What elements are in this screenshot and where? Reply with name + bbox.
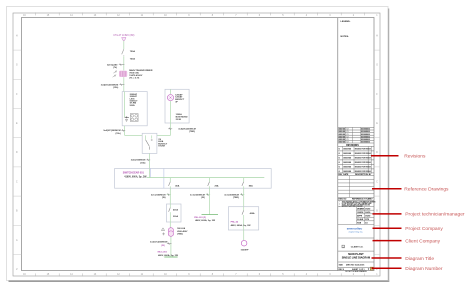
svg-text:CLIENT CO.: CLIENT CO. — [351, 247, 364, 249]
svg-text:Diagram Number: Diagram Number — [405, 266, 443, 272]
disclaimer block — [338, 200, 375, 208]
svg-text:DATE: DATE — [343, 173, 349, 176]
svg-text:0/00/00: 0/00/00 — [338, 142, 346, 144]
svg-text:Client Company: Client Company — [405, 238, 440, 244]
svg-text:200A: 200A — [173, 215, 178, 218]
sheet shadow — [9, 9, 390, 282]
ruler ticks rows — [13, 50, 380, 254]
feeder 1 fuse labels — [173, 209, 178, 218]
inner drawing frame — [22, 18, 375, 271]
ruler zone numbers — [23, 14, 378, 276]
svg-text:ST-RM: ST-RM — [158, 146, 165, 148]
panel PNL-001 bus stub — [202, 214, 219, 216]
cable label tie drop — [131, 159, 146, 165]
project company logo — [338, 227, 374, 239]
CT symbols — [113, 71, 117, 78]
svg-text:00/00/00: 00/00/00 — [343, 167, 352, 169]
svg-text:3(1/C)#4/0: 3(1/C)#4/0 — [107, 63, 118, 66]
wire: spare cubicle drop — [157, 123, 171, 135]
svg-text:CHECK: CHECK — [357, 212, 364, 214]
svg-text:ISSUED FOR REV: ISSUED FOR REV — [355, 162, 370, 164]
MCC bus stub — [164, 256, 177, 258]
breaker B2 label — [175, 93, 185, 103]
svg-text:(7k): (7k) — [113, 67, 117, 69]
svg-text:50VA: 50VA — [130, 104, 136, 107]
cable tick right drop — [168, 128, 172, 130]
bus 4160V — [147, 177, 265, 179]
MCC rating label — [158, 254, 179, 257]
feeder 3 fuse label — [250, 212, 255, 215]
wire inside incomer cubicle — [124, 92, 126, 118]
breaker CT mark — [125, 117, 129, 122]
svg-text:ISSUED FOR REV: ISSUED FOR REV — [355, 171, 370, 173]
annotation line: Diagram Number — [372, 267, 402, 269]
annotation label: Project Company — [405, 226, 443, 232]
switchgear cell divider 1 — [150, 169, 152, 178]
wire: utility drop — [123, 41, 125, 50]
feeder 1 lower cable tick — [167, 243, 172, 245]
svg-text:Project technician/manager: Project technician/manager — [405, 212, 465, 218]
switchgear cell divider 2 — [163, 169, 165, 189]
spare bus label — [176, 113, 188, 121]
feeder 2 cable tick — [206, 193, 210, 195]
feeder tap 3 — [242, 178, 244, 189]
cable label 3(1/C)#4/0 — [107, 63, 118, 69]
annotation label: Revisions — [404, 154, 426, 160]
annotation label: Project technician/manager — [405, 212, 465, 218]
feeder 2 cable label — [190, 194, 205, 199]
svg-text:G: G — [16, 64, 18, 67]
svg-text:3x4(3/C)500MCM: 3x4(3/C)500MCM — [103, 129, 121, 132]
transformer T1 — [119, 71, 127, 77]
svg-text:Reference Drawings: Reference Drawings — [404, 187, 449, 193]
cable tick tie drop — [146, 159, 150, 161]
svg-text:400A: 400A — [173, 209, 178, 212]
svg-text:750A: 750A — [130, 50, 136, 53]
svg-text:(15k): (15k) — [113, 87, 118, 89]
diagram number row — [339, 267, 373, 271]
client company row — [338, 245, 374, 251]
svg-text:20A: 20A — [215, 184, 219, 187]
svg-text:40A: 40A — [175, 184, 179, 187]
svg-text:▼: ▼ — [367, 268, 370, 271]
svg-text:DRAWN: DRAWN — [357, 207, 364, 210]
svg-text:SCALE: SCALE — [357, 218, 364, 221]
svg-text:DESCRIPTION: DESCRIPTION — [355, 174, 369, 176]
panel PNL-001 rating — [195, 219, 216, 222]
notes heading — [341, 36, 350, 38]
svg-text:Project Company: Project Company — [405, 226, 443, 232]
disconnect switch S1 — [122, 49, 125, 55]
svg-text:480V, 600A, 3φ, 3W: 480V, 600A, 3φ, 3W — [158, 254, 179, 257]
incomer breaker data — [130, 93, 139, 107]
revision summary table — [338, 127, 374, 143]
feeder 1 switch box — [167, 204, 182, 222]
svg-text:(TBD): (TBD) — [177, 233, 183, 235]
annotation line: Project Company — [373, 227, 402, 229]
switchgear name label — [123, 171, 145, 174]
svg-text:ISSUED FOR REV: ISSUED FOR REV — [355, 149, 370, 151]
svg-text:Diagram Title: Diagram Title — [405, 256, 434, 262]
svg-text:(15k): (15k) — [140, 162, 145, 164]
tie switch box — [142, 133, 157, 153]
svg-text:H: H — [16, 34, 18, 37]
svg-text:enersoltec: enersoltec — [347, 227, 363, 231]
svg-text:00/00/00: 00/00/00 — [343, 171, 352, 173]
cable label right drop — [178, 128, 196, 134]
tie switch — [146, 135, 153, 149]
incomer cubicle box (left) — [122, 92, 147, 126]
svg-text:MCC-001: MCC-001 — [158, 252, 168, 254]
sign-off rows — [338, 207, 374, 225]
revisions header row — [338, 173, 374, 176]
panel PNL-002 rating — [231, 224, 252, 227]
svg-text:00/00/00: 00/00/00 — [343, 158, 352, 160]
annotation line: Client Company — [373, 240, 402, 242]
svg-text:3x1@500MCM: 3x1@500MCM — [224, 194, 239, 196]
svg-text:0/0/00: 0/0/00 — [365, 216, 370, 218]
cable tick (7k) — [119, 64, 125, 66]
feeder 3 cable tick — [240, 193, 244, 195]
panel PNL-002 box — [228, 207, 258, 230]
svg-text:SINGLE LINE DIAGRAM: SINGLE LINE DIAGRAM — [342, 256, 370, 259]
annotation label: Client Company — [405, 238, 440, 244]
svg-text:400A: 400A — [250, 212, 255, 215]
svg-text:(TBD): (TBD) — [189, 131, 195, 133]
utility source symbol — [122, 38, 126, 41]
svg-text:25.9K: 25.9K — [176, 119, 182, 121]
svg-text:REV 0: REV 0 — [339, 269, 344, 271]
motor M1 — [241, 240, 247, 246]
svg-text:3x4(3/C)500MCM: 3x4(3/C)500MCM — [101, 83, 119, 86]
wire into spare cubicle — [170, 89, 172, 94]
tie switch label — [158, 139, 168, 148]
transformer T2 label — [177, 227, 188, 235]
svg-text:3x3(1/C)500MCM: 3x3(1/C)500MCM — [150, 242, 168, 244]
footer note — [345, 270, 367, 273]
svg-text:LEGEND:: LEGEND: — [341, 21, 351, 23]
annotation line: Diagram Title — [372, 257, 402, 259]
svg-text:SIZE: SIZE — [339, 264, 344, 266]
panel PNL-001 name — [194, 217, 206, 219]
svg-text:3x4@500MCM: 3x4@500MCM — [131, 159, 146, 162]
svg-text:4160-480V: 4160-480V — [177, 230, 188, 233]
wire: feeder 2 drop — [209, 188, 211, 214]
transformer T1 label — [129, 69, 153, 79]
cable label 3x4(3/C)500MCM — [101, 83, 119, 89]
svg-text:3x4(3/C)500MCM: 3x4(3/C)500MCM — [178, 128, 196, 131]
fuse label 750b — [130, 58, 136, 61]
annotation line: Reference Drawings — [372, 188, 402, 190]
wire inside spare cubicle — [170, 101, 172, 123]
svg-text:DO NOT SCALE DRAWING: DO NOT SCALE DRAWING — [345, 270, 367, 273]
cable tick left drop — [121, 129, 125, 131]
svg-text:PNL-02: PNL-02 — [231, 222, 239, 224]
svg-text:NOTES:: NOTES: — [341, 36, 350, 38]
MCC name label — [158, 252, 168, 254]
feeder 3 switch — [242, 207, 244, 230]
ruler zone letters — [16, 34, 378, 271]
svg-text:APPR: APPR — [357, 215, 363, 218]
cable tick (15k) — [119, 84, 124, 86]
feeder 3 cable label — [224, 194, 239, 199]
svg-text:3x1@500MCM: 3x1@500MCM — [151, 194, 166, 196]
feeder 1 cable label — [151, 194, 166, 199]
svg-text:PNL-001 (F): PNL-001 (F) — [194, 217, 206, 219]
breaker B2 (circle symbol) — [167, 95, 173, 101]
svg-text:00/00/00: 00/00/00 — [343, 162, 352, 164]
svg-text:D: D — [16, 151, 18, 154]
svg-text:00000000: 00000000 — [361, 142, 371, 144]
svg-text:1000HP: 1000HP — [241, 250, 249, 252]
annotation line: Revisions — [371, 155, 399, 157]
svg-text:A1: A1 — [365, 222, 367, 225]
legend heading — [341, 21, 351, 23]
annotation label: Diagram Title — [405, 256, 434, 262]
svg-text:ISSUED FOR REV: ISSUED FOR REV — [355, 153, 370, 155]
svg-text:C: C — [376, 180, 378, 183]
svg-text:500 kVA: 500 kVA — [177, 227, 185, 230]
svg-text:750A: 750A — [130, 58, 136, 61]
switchgear rating label — [124, 176, 147, 179]
svg-text:(W): (W) — [162, 197, 166, 199]
diagram title box — [338, 253, 374, 262]
revisions table — [338, 145, 374, 173]
svg-text:DWG NO 102-E-0001: DWG NO 102-E-0001 — [346, 264, 364, 266]
svg-text:Z% = 5.75: Z% = 5.75 — [129, 77, 140, 79]
fuse label 750 — [130, 50, 136, 53]
svg-text:(W): (W) — [161, 245, 165, 247]
svg-text:C: C — [16, 180, 18, 183]
feeder tap 1 — [169, 178, 171, 189]
feeder tap 2 — [208, 178, 210, 189]
motor M1 label — [241, 250, 249, 252]
feeder 1 cable tick — [167, 193, 171, 195]
wire: switch to transformer — [123, 56, 125, 70]
svg-text:480V, 600A, 3φ, 3W: 480V, 600A, 3φ, 3W — [231, 224, 252, 227]
annotation line: Project technician/manager — [373, 213, 402, 215]
referenced drawings header — [338, 199, 374, 201]
cable label left drop — [103, 129, 121, 135]
drawing size row — [338, 264, 374, 267]
wire: incomer cubicle drop — [125, 126, 143, 136]
feeder fuse label 20A — [215, 184, 219, 187]
feeder fuse label 40A — [175, 184, 179, 187]
outer ruler frame — [13, 13, 380, 276]
svg-text:Revisions: Revisions — [404, 154, 426, 160]
svg-text:(15k): (15k) — [115, 133, 120, 135]
svg-text:(W): (W) — [201, 197, 205, 199]
svg-text:G: G — [376, 64, 378, 67]
wire: feeder 3 drop — [243, 188, 245, 207]
page sheet — [7, 7, 389, 281]
svg-text:00/00/00: 00/00/00 — [343, 149, 352, 151]
svg-text:0/0/00: 0/0/00 — [365, 208, 370, 210]
wire: panel to motor — [243, 230, 245, 240]
ruler ticks columns — [36, 12, 365, 276]
svg-text:4160V, 600A, 3φ, 3W: 4160V, 600A, 3φ, 3W — [124, 176, 147, 179]
svg-text:ISSUED FOR REV: ISSUED FOR REV — [355, 167, 370, 169]
svg-text:0/0/00: 0/0/00 — [365, 212, 370, 214]
wire: feeder 1 drop — [169, 188, 171, 204]
svg-text:00/00/00: 00/00/00 — [343, 153, 352, 155]
svg-text:H: H — [376, 34, 378, 37]
wire: transformer to switchgear — [123, 77, 125, 92]
feeder fuse label 80A — [249, 184, 253, 187]
panel PNL-002 name — [231, 222, 239, 224]
svg-text:480V, 600A, 3φ, 3W: 480V, 600A, 3φ, 3W — [195, 219, 216, 222]
node: utility supply label — [113, 34, 134, 37]
wire: T2 to MCC — [170, 237, 172, 257]
referenced drawings table — [338, 176, 374, 198]
feeder 1 lower cable label — [150, 242, 168, 248]
annotation label: Reference Drawings — [404, 187, 449, 193]
svg-text:engineering inc.: engineering inc. — [348, 230, 363, 233]
switchgear enclosure — [115, 169, 272, 189]
drawout breaker symbol — [130, 114, 138, 122]
wire: box to transformer T2 — [169, 222, 171, 228]
svg-text:SWITCHGEAR 001: SWITCHGEAR 001 — [123, 171, 145, 174]
svg-text:(TBD): (TBD) — [233, 197, 239, 199]
title block: legend column — [337, 18, 339, 271]
wire: tie to bus — [148, 153, 150, 177]
svg-text:UTIL AT 13.8kV (3W): UTIL AT 13.8kV (3W) — [113, 34, 134, 37]
svg-text:80A: 80A — [249, 184, 253, 187]
transformer T2 — [161, 228, 173, 237]
spare cubicle box (right) — [165, 89, 189, 123]
svg-text:3x1@500MCM: 3x1@500MCM — [190, 194, 205, 196]
svg-text:D: D — [376, 151, 378, 154]
annotation label: Diagram Number — [405, 266, 443, 272]
svg-text:ISSUED FOR REV: ISSUED FOR REV — [355, 158, 370, 160]
feeder 1 switch — [169, 204, 171, 222]
